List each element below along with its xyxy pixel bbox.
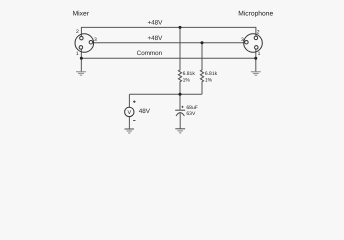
svg-text:V: V xyxy=(127,110,131,116)
svg-text:1%: 1% xyxy=(205,78,213,84)
svg-text:1: 1 xyxy=(76,51,79,57)
svg-text:6.81k: 6.81k xyxy=(183,71,196,77)
svg-text:1%: 1% xyxy=(183,78,191,84)
svg-text:Common: Common xyxy=(137,50,163,57)
svg-text:6.81k: 6.81k xyxy=(205,71,218,77)
svg-text:2: 2 xyxy=(257,29,260,35)
svg-text:Mixer: Mixer xyxy=(73,11,90,18)
svg-text:+48V: +48V xyxy=(148,20,164,27)
svg-text:3: 3 xyxy=(241,37,244,43)
svg-text:3: 3 xyxy=(94,37,97,43)
svg-text:1: 1 xyxy=(258,51,261,57)
svg-text:Microphone: Microphone xyxy=(238,11,273,18)
svg-text:48V: 48V xyxy=(139,108,151,115)
svg-text:+48V: +48V xyxy=(148,35,164,42)
svg-text:2: 2 xyxy=(76,29,79,35)
svg-text:63V: 63V xyxy=(186,111,196,117)
